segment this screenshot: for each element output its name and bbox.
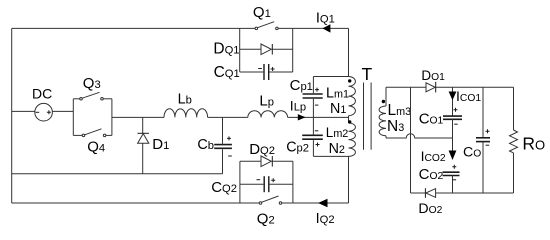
svg-text:Lb: Lb [178,91,192,107]
wire top rail left segment [12,27,255,29]
winding Lm1 N1 [326,77,355,118]
Q1 block right vertical wire [292,28,294,72]
wire rail between windings [348,116,350,123]
current arrow IQ1 [316,11,335,33]
wire middle return rail [12,173,223,175]
inductor Lb [164,91,208,117]
current arrow IQ2 [316,199,335,227]
svg-text:Cb: Cb [197,137,214,153]
Q1 block left vertical wire [239,28,241,72]
svg-text:DC: DC [32,85,52,101]
diode DO2 [418,188,513,217]
capacitor CQ2 [211,176,293,196]
source DC [12,85,74,121]
winding Lm2 N2 [326,120,356,157]
svg-text:Cp2: Cp2 [286,139,309,155]
wire output bottom rail left [411,192,426,194]
wire main to Lb [112,116,164,118]
switch Q3 [73,75,112,135]
svg-text:T: T [362,64,373,84]
transformer T core [362,64,373,150]
wire Lb to Lp [208,116,248,118]
diode DQ2 [240,141,293,167]
wire top rail drop to transformer [348,28,350,76]
switch Q4 [73,99,112,156]
diode D1 [138,117,170,173]
svg-text:N1: N1 [330,101,346,117]
wire secondary bottom with hop [386,134,453,138]
svg-text:Lm2: Lm2 [326,125,349,140]
svg-text:N2: N2 [329,141,345,157]
wire bottom rail left segment [12,202,259,204]
switch Q2 [257,196,282,228]
wire secondary mid vertical [410,87,412,193]
wire primary rail to bottom [348,156,350,203]
svg-text:IQ2: IQ2 [316,211,335,227]
svg-text:IQ1: IQ1 [316,11,335,27]
current arrow ICO2 [421,148,457,164]
capacitor CO2 [419,165,460,193]
wire left rail [11,28,13,203]
inductor Lp [248,92,288,117]
capacitor Cp2 [286,131,323,157]
wire top link node [313,76,348,78]
Q2 block left vertical wire [239,161,241,203]
current arrow ICO1 [449,87,482,116]
capacitor Cp1 [290,77,323,135]
capacitor CO [463,87,490,193]
wire top rail right segment [278,27,348,29]
capacitor CQ1 [214,64,293,81]
capacitor CO1 [419,108,462,151]
wire output top rail [453,86,514,88]
winding Lm3 N3 [379,87,411,138]
svg-text:Lm1: Lm1 [326,85,349,101]
resistor RO [510,87,546,193]
current arrow ILp [290,98,306,121]
wire secondary top [386,86,426,88]
wire bottom link [313,155,348,157]
switch Q1 [253,4,278,30]
wire bottom rail right segment [282,202,349,204]
Q2 block right vertical wire [292,161,294,203]
diode DO1 [421,68,452,93]
capacitor Cb [197,117,232,173]
wire Lp to primary node [288,116,349,118]
diode DQ1 [213,40,292,57]
